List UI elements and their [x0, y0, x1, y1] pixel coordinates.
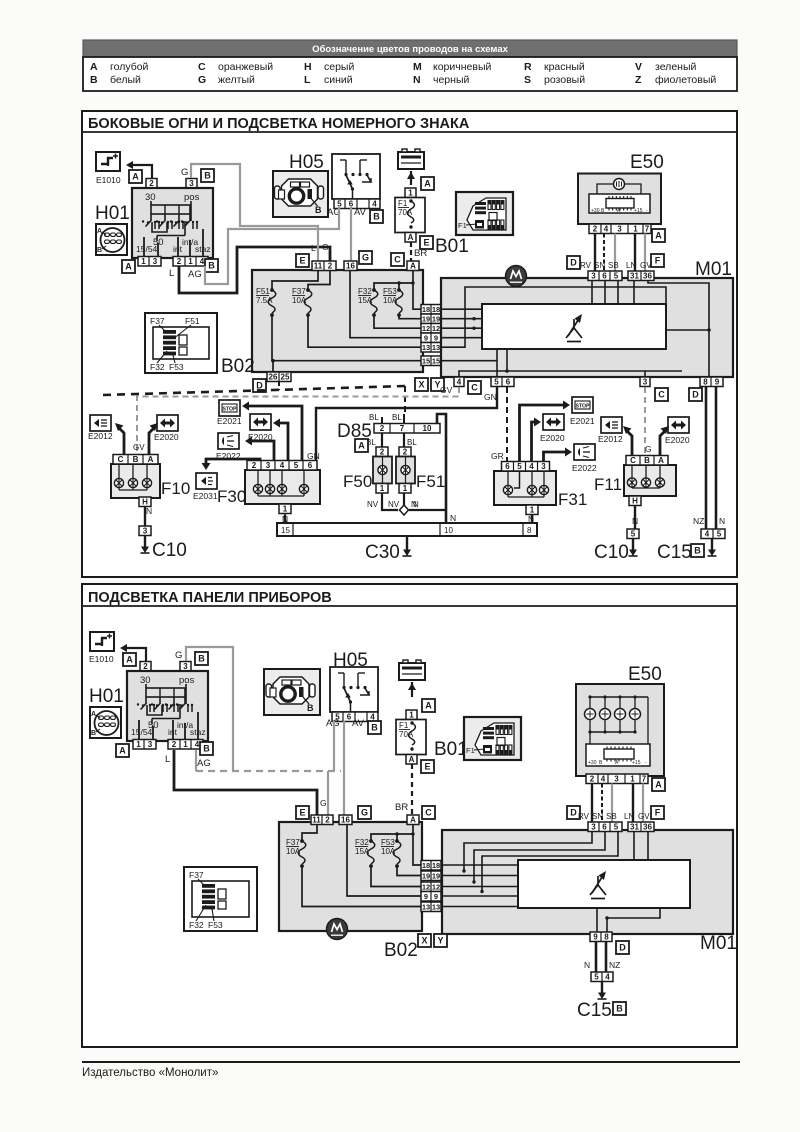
svg-text:SN: SN: [594, 261, 605, 270]
node label C: [391, 253, 404, 266]
svg-text:18: 18: [432, 861, 440, 870]
wire AG (H01-2): [195, 750, 197, 771]
svg-text:1: 1: [183, 740, 188, 749]
svg-text:C: C: [118, 455, 124, 464]
svg-text:9: 9: [424, 334, 428, 343]
wire F30-5 to E2021: [245, 406, 302, 463]
diagram 2 outer frame: [82, 584, 737, 1047]
svg-text:F37: F37: [189, 870, 204, 880]
pin row 8 9 (M01 bottom): [700, 377, 723, 387]
svg-text:+15: +15: [632, 760, 641, 766]
pin H (F11): [629, 496, 641, 506]
node label X: [415, 378, 428, 391]
svg-text:+30: +30: [588, 760, 597, 766]
node label A: [355, 439, 368, 452]
svg-text:13: 13: [432, 903, 440, 912]
wire pinA branch to pin 18 (2): [413, 834, 421, 865]
svg-text:26: 26: [269, 373, 278, 382]
node label E: [296, 254, 309, 267]
svg-text:E2021: E2021: [217, 416, 242, 426]
svg-text:F50: F50: [343, 472, 372, 491]
svg-text:5: 5: [631, 530, 636, 539]
wire pin36 to pin 8: [648, 281, 709, 378]
svg-text:GV: GV: [440, 385, 453, 395]
wire module bottom to pin 5: [496, 349, 498, 361]
svg-text:C10: C10: [594, 542, 629, 563]
svg-text:10: 10: [423, 424, 432, 433]
svg-text:E2022: E2022: [572, 463, 597, 473]
svg-text:3: 3: [591, 272, 596, 281]
svg-text:3: 3: [614, 775, 619, 784]
svg-text:16: 16: [346, 262, 355, 271]
pin row 4 5 (C15): [701, 529, 725, 539]
wires M01 left rows to module: [441, 308, 482, 310]
svg-text:E: E: [424, 761, 430, 771]
wire H01 pin2 to E1010: [130, 165, 152, 179]
node label A: [129, 170, 142, 183]
node label E: [296, 806, 309, 819]
wire NZ to C15 (2): [605, 942, 608, 973]
dashed wire M01-6 to F31: [506, 387, 508, 461]
wire F30-2 to E2031: [206, 459, 260, 464]
svg-text:A: A: [148, 455, 154, 464]
svg-text:6: 6: [602, 823, 607, 832]
pin row E50: [589, 224, 651, 234]
instrument cluster E50-2 box: [576, 684, 664, 776]
svg-text:RV: RV: [580, 261, 592, 270]
svg-text:E2012: E2012: [598, 434, 623, 444]
svg-text:G: G: [320, 798, 327, 808]
svg-text:F: F: [655, 807, 661, 817]
svg-text:BR: BR: [395, 802, 408, 813]
svg-text:F53: F53: [208, 920, 223, 930]
connector rear view (H01): [96, 224, 127, 255]
wire F51 to pin 15: [272, 315, 421, 361]
wire F30-3 to E2022: [248, 441, 274, 463]
wire F32 to pin 12 (2): [371, 866, 421, 887]
svg-text:M01: M01: [700, 933, 737, 954]
pin row 5 4 (C15-2): [591, 972, 613, 982]
svg-text:1: 1: [403, 484, 408, 493]
svg-text:2: 2: [328, 262, 333, 271]
fuse F53: [383, 287, 403, 317]
svg-text:2: 2: [325, 816, 330, 825]
svg-text:4: 4: [529, 462, 534, 471]
svg-text:NV: NV: [388, 500, 400, 509]
dimmer symbol (2): [590, 871, 606, 899]
svg-text:B: B: [203, 743, 210, 753]
pin 16 (B02-2 top): [339, 815, 352, 825]
wire F53 to pin 19 (2): [397, 866, 421, 876]
wire AG (H01 to H05): [205, 207, 339, 284]
node label Y: [434, 934, 447, 947]
switch H05 contacts box: [330, 667, 378, 712]
pin row F31: [502, 462, 550, 472]
svg-text:V: V: [635, 61, 642, 73]
svg-text:F1: F1: [399, 721, 409, 730]
svg-text:D: D: [619, 942, 626, 952]
svg-text:1: 1: [380, 484, 385, 493]
svg-text:E1010: E1010: [89, 654, 114, 664]
svg-text:4: 4: [200, 257, 205, 266]
svg-text:STOP: STOP: [575, 404, 590, 410]
svg-text:31: 31: [630, 823, 639, 832]
fuse location pictogram F37/F51: [145, 313, 217, 373]
node label B: [195, 652, 208, 665]
pin 1 (F1 top): [405, 188, 416, 198]
svg-text:GN: GN: [484, 392, 497, 402]
fuse F1 70A box (2): [396, 720, 426, 755]
node label A: [422, 699, 435, 712]
fuse box pictogram B01: [464, 717, 521, 760]
svg-text:15: 15: [281, 526, 290, 535]
ground symbol E2021: [219, 400, 240, 416]
node label B: [205, 259, 218, 272]
svg-text:NV: NV: [367, 500, 379, 509]
svg-text:6: 6: [602, 272, 607, 281]
lamp connector F10: [111, 464, 160, 498]
svg-text:1: 1: [283, 505, 288, 514]
svg-text:A: A: [119, 745, 126, 755]
ground symbol E2020 c: [543, 414, 564, 430]
svg-text:белый: белый: [110, 74, 141, 86]
svg-text:GV: GV: [640, 261, 652, 270]
node label D: [689, 388, 702, 401]
svg-text:B: B: [90, 74, 98, 86]
wires M01 top pins to module: [591, 281, 593, 305]
svg-text:3: 3: [541, 462, 546, 471]
lamp F51: [396, 447, 415, 493]
svg-text:4: 4: [372, 200, 377, 209]
wire D85-10 to C30: [437, 414, 446, 523]
node label D: [567, 256, 580, 269]
svg-text:AV: AV: [354, 207, 367, 218]
svg-text:F51: F51: [416, 472, 445, 491]
wire pin11 to F51: [272, 271, 318, 290]
svg-text:A: A: [90, 61, 98, 73]
node label E: [421, 760, 434, 773]
wire LN (2): [632, 784, 634, 823]
ground symbol E2020 d: [668, 417, 689, 433]
svg-text:10: 10: [444, 526, 453, 535]
pin row H05 (2): [332, 712, 378, 722]
svg-text:E50: E50: [630, 152, 664, 173]
svg-text:2: 2: [149, 179, 154, 188]
svg-text:E1010: E1010: [96, 175, 121, 185]
ground symbol E2031: [196, 473, 217, 489]
lamp connector F30: [245, 470, 320, 504]
svg-text:int: int: [173, 244, 183, 254]
svg-text:H01: H01: [89, 686, 124, 707]
node label B: [691, 544, 704, 557]
pin 1 (F1-2 top): [406, 710, 417, 720]
svg-text:M01: M01: [695, 259, 732, 280]
pin A (B02 top): [407, 261, 419, 271]
switch H01 internal contacts: [136, 192, 211, 256]
svg-text:F32: F32: [150, 362, 165, 372]
svg-text:G: G: [175, 650, 182, 661]
svg-text:+15: +15: [634, 208, 643, 214]
svg-text:E2020: E2020: [665, 435, 690, 445]
wire F37 to pin 13: [308, 315, 421, 347]
fuse holder box B02 (2): [279, 822, 422, 931]
node label E: [420, 236, 433, 249]
svg-text:4: 4: [457, 378, 462, 387]
wire row15 to pin 26: [271, 359, 275, 363]
wire pin11 to F37 (2): [302, 825, 317, 840]
wire H01 pin2 to E1010 (2): [124, 648, 146, 662]
ground point E1010: [96, 152, 120, 171]
wire row13 around module: [441, 287, 666, 347]
wire GN (M01 to F30): [316, 387, 497, 463]
pin 4 (M01 bottom): [454, 377, 464, 387]
svg-text:7: 7: [642, 775, 647, 784]
ground symbol E2020 b: [250, 414, 271, 430]
wire battery feed (2): [411, 682, 413, 697]
svg-text:5: 5: [517, 462, 522, 471]
svg-text:A: A: [358, 440, 365, 450]
wire F53 to pin 19: [399, 315, 421, 319]
svg-text:B02: B02: [221, 356, 255, 377]
pin row H01 bottom right: [173, 257, 208, 267]
svg-text:RV: RV: [578, 812, 590, 821]
svg-text:M: M: [413, 61, 422, 73]
svg-text:15/54: 15/54: [131, 727, 153, 737]
wire F31 to C30: [531, 515, 533, 524]
wire F10 to C10: [144, 507, 146, 527]
node label A: [123, 653, 136, 666]
svg-text:4: 4: [195, 740, 200, 749]
svg-text:8: 8: [527, 526, 532, 535]
switch H01 internal contacts: [131, 675, 206, 739]
svg-text:1: 1: [136, 740, 141, 749]
node label A: [421, 177, 434, 190]
ground symbol E2021 b: [572, 397, 593, 413]
dimmer symbol: [566, 314, 582, 342]
switch assembly H01 box: [132, 188, 213, 258]
ground symbol E2012 b: [601, 417, 622, 433]
svg-text:5: 5: [717, 530, 722, 539]
svg-text:19: 19: [422, 872, 430, 881]
wire pinA to F32 F53 (2): [371, 825, 413, 840]
module M01-2 inner box: [518, 860, 690, 908]
svg-text:A: A: [410, 262, 416, 271]
svg-text:6: 6: [505, 462, 510, 471]
wire F30-4 to E2020: [275, 423, 288, 463]
svg-text:SB: SB: [606, 812, 617, 821]
svg-text:L: L: [311, 243, 316, 253]
wire module bottom rail: [459, 371, 682, 377]
wire BR fuse to B02 (2): [411, 764, 413, 815]
wire F50 F51 to C30: [382, 494, 398, 511]
svg-text:1: 1: [408, 189, 413, 198]
pin row H01-2 bottom right: [168, 740, 203, 750]
svg-text:B: B: [644, 456, 650, 465]
svg-text:12: 12: [422, 324, 430, 333]
pin row D85: [374, 424, 440, 434]
svg-text:15/54: 15/54: [136, 244, 158, 254]
ground C10 left: [141, 536, 150, 554]
wire AV (H05 to B02): [350, 207, 352, 261]
pin 16 (B02 top): [344, 261, 357, 271]
svg-text:staz: staz: [190, 727, 206, 737]
svg-text:B: B: [204, 170, 211, 180]
wire F11-A to E2020: [660, 431, 665, 456]
svg-text:B: B: [694, 545, 701, 555]
wire F31-5 to E2021: [520, 405, 568, 463]
ground point E1010 (2): [90, 632, 114, 651]
svg-text:19: 19: [432, 315, 440, 324]
svg-text:A: A: [97, 228, 102, 235]
svg-text:13: 13: [422, 903, 430, 912]
svg-text:36: 36: [643, 272, 652, 281]
svg-text:9: 9: [434, 334, 438, 343]
svg-text:3: 3: [189, 179, 194, 188]
svg-text:F37: F37: [292, 287, 306, 296]
wire L (H01 to B02): [179, 247, 330, 293]
node label G: [358, 806, 371, 819]
pin A (F1-2 bottom): [406, 755, 417, 765]
svg-text:15: 15: [422, 357, 430, 366]
device pictogram H05: [273, 171, 328, 217]
svg-text:1: 1: [633, 225, 638, 234]
svg-text:E2020: E2020: [540, 433, 565, 443]
node label Y: [431, 378, 444, 391]
svg-text:2: 2: [172, 740, 177, 749]
svg-text:3: 3: [643, 378, 648, 387]
svg-text:C15: C15: [657, 542, 692, 563]
svg-text:C10: C10: [152, 540, 187, 561]
svg-text:C: C: [630, 456, 636, 465]
svg-text:R: R: [524, 61, 532, 73]
svg-text:5: 5: [494, 378, 499, 387]
diagram 2 title: [82, 605, 737, 607]
svg-text:9: 9: [424, 892, 428, 901]
svg-text:C: C: [425, 807, 432, 817]
svg-text:фиолетовый: фиолетовый: [655, 74, 716, 86]
instrument cluster E50 box: [578, 174, 661, 225]
svg-text:B: B: [307, 703, 314, 713]
wire G (H01 to B02): [191, 164, 318, 261]
svg-text:A: A: [132, 171, 139, 181]
svg-text:F31: F31: [558, 490, 587, 509]
svg-text:G: G: [362, 252, 369, 262]
svg-text:N: N: [413, 500, 419, 509]
svg-text:3: 3: [617, 225, 622, 234]
node label X: [418, 934, 431, 947]
svg-text:N: N: [719, 516, 725, 526]
pin row 31 36 (M01-2 top): [628, 822, 654, 832]
svg-text:F32: F32: [189, 920, 204, 930]
pin row F30: [247, 461, 317, 471]
svg-text:36: 36: [643, 823, 652, 832]
svg-text:5: 5: [294, 461, 299, 470]
svg-text:2: 2: [380, 424, 385, 433]
wire GV (E50): [644, 234, 646, 272]
pin row 31 36 (M01 top): [628, 271, 654, 281]
svg-text:AG: AG: [188, 269, 202, 280]
svg-text:F51: F51: [185, 316, 200, 326]
ground arrow C15 (2): [598, 982, 607, 1000]
ground symbol E2022 b: [574, 444, 595, 460]
pin stack B02-M01: [421, 305, 441, 315]
svg-text:F37: F37: [286, 838, 300, 847]
svg-text:F53: F53: [381, 838, 395, 847]
svg-text:B01: B01: [434, 739, 468, 760]
svg-text:13: 13: [432, 343, 440, 352]
dashed wire G AG (2): [196, 770, 341, 772]
svg-text:AG: AG: [326, 718, 340, 729]
wire F30 to C30: [284, 515, 286, 524]
svg-text:E2012: E2012: [88, 431, 113, 441]
svg-text:Издательство «Монолит»: Издательство «Монолит»: [82, 1067, 218, 1079]
fuse F32: [355, 838, 375, 868]
svg-text:4: 4: [280, 461, 285, 470]
svg-text:7: 7: [400, 424, 405, 433]
svg-text:H01: H01: [95, 203, 130, 224]
svg-text:B: B: [198, 653, 205, 663]
pin row 3 6 5 (M01-2 top): [588, 822, 622, 832]
svg-text:A: A: [409, 755, 415, 764]
legend table box: [83, 57, 737, 91]
svg-text:F11: F11: [594, 475, 622, 494]
svg-text:A: A: [410, 816, 416, 825]
svg-text:1: 1: [409, 711, 414, 720]
svg-text:B: B: [97, 247, 102, 254]
wire pinA to F32 F53: [374, 271, 413, 290]
svg-text:12: 12: [432, 883, 440, 892]
svg-text:BL: BL: [369, 413, 379, 422]
node label F: [651, 806, 664, 819]
svg-text:NZ: NZ: [693, 516, 704, 526]
svg-text:7: 7: [645, 225, 650, 234]
svg-text:+30: +30: [591, 208, 600, 214]
svg-text:D: D: [570, 257, 577, 267]
svg-text:B: B: [133, 455, 139, 464]
svg-text:19: 19: [432, 872, 440, 881]
pin row 9 8 (M01-2 bottom): [590, 932, 612, 942]
svg-text:6: 6: [308, 461, 313, 470]
svg-text:3: 3: [591, 823, 596, 832]
pin stack B02-M01 (2): [421, 861, 441, 871]
wire D85-7 to F51: [403, 433, 405, 447]
wire SB: [614, 234, 616, 272]
svg-text:A: A: [658, 456, 664, 465]
svg-text:D: D: [692, 389, 699, 399]
pin row F10: [113, 455, 158, 465]
pin 5 (C10 right): [627, 529, 639, 539]
legend header bar: [83, 40, 737, 57]
device pictogram H05: [264, 669, 320, 715]
svg-text:GV: GV: [133, 443, 145, 452]
svg-text:L: L: [304, 74, 311, 86]
ground arrow C15: [708, 539, 717, 557]
svg-text:F32: F32: [355, 838, 369, 847]
wire SN (2): [601, 784, 603, 823]
node label C: [422, 806, 435, 819]
svg-text:A: A: [655, 230, 662, 240]
svg-text:H: H: [632, 497, 638, 506]
svg-text:3: 3: [143, 527, 148, 536]
switch H05 contacts box: [332, 154, 380, 199]
dashed wire B02 D to D85: [103, 386, 405, 395]
svg-text:C30: C30: [365, 542, 400, 563]
svg-text:4: 4: [601, 775, 606, 784]
svg-text:3: 3: [266, 461, 271, 470]
pin row 26 25 (B02 bottom): [267, 372, 291, 382]
svg-text:NZ: NZ: [609, 960, 620, 970]
svg-text:31: 31: [630, 272, 639, 281]
